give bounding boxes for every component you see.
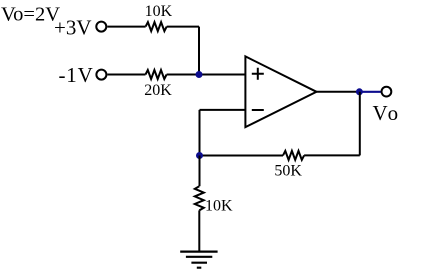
wire -1V to R2 <box>107 74 145 76</box>
wire corner down to summing node <box>198 27 200 75</box>
op-amp minus mark <box>252 109 264 111</box>
wire output down to feedback <box>359 92 361 156</box>
svg-text:20K: 20K <box>144 82 172 99</box>
terminal -1V circle <box>96 70 106 80</box>
svg-text:Vo: Vo <box>373 101 399 125</box>
wire R3 to output corner <box>304 154 360 156</box>
svg-text:+3V: +3V <box>54 15 92 39</box>
svg-text:10K: 10K <box>205 198 233 215</box>
resistor R4 10K vertical <box>195 186 204 210</box>
svg-text:-1V: -1V <box>59 63 94 87</box>
terminal Vo circle <box>382 87 392 97</box>
ground <box>180 252 217 268</box>
wire inverting input down to feedback node <box>199 110 201 156</box>
resistor R3 50K <box>283 151 304 160</box>
wire +3V to R1 <box>107 26 145 28</box>
wire R1 to corner <box>167 26 199 28</box>
resistor R2 20K <box>146 70 167 79</box>
node summing junction dot <box>196 71 203 78</box>
op-amp U1 <box>245 56 316 127</box>
wire output to terminal (blue) <box>359 91 381 93</box>
node output dot <box>356 88 363 95</box>
svg-text:10K: 10K <box>145 3 173 20</box>
svg-text:Vo=2V: Vo=2V <box>1 4 60 26</box>
wire op-amp output <box>317 91 360 93</box>
op-amp plus mark <box>252 68 264 80</box>
node feedback junction dot <box>196 152 203 159</box>
svg-text:50K: 50K <box>274 163 302 180</box>
wire feedback node down to R4 <box>199 156 201 187</box>
wire feedback node to R3 <box>200 155 284 157</box>
resistor R1 10K <box>146 22 167 31</box>
terminal +3V circle <box>96 22 106 32</box>
wire R2 to op-amp noninverting input <box>167 74 246 76</box>
wire R4 to ground <box>198 210 200 251</box>
wire inverting input <box>200 109 246 111</box>
